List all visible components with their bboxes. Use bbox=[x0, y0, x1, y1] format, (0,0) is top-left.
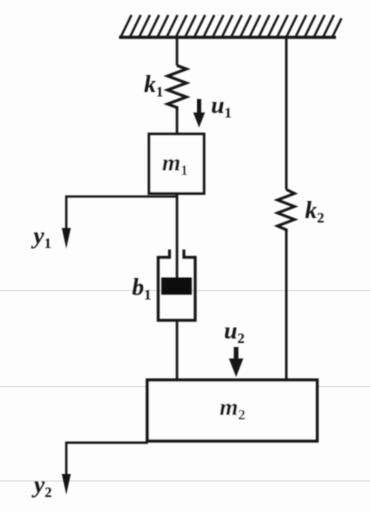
damper b1 piston bbox=[161, 278, 192, 295]
spring k1 bbox=[168, 66, 187, 111]
mass m2 bbox=[147, 380, 317, 441]
arrowhead y2 bbox=[62, 474, 71, 495]
wire: ceiling to spring k1 bbox=[176, 37, 179, 66]
mass m1 bbox=[149, 134, 204, 194]
wire: mass m1 to damper piston rod bbox=[176, 194, 179, 280]
spring k2 bbox=[278, 190, 295, 233]
wire: spring k2 to mass m2 bbox=[285, 232, 288, 381]
wire: damper b1 to mass m2 bbox=[176, 320, 179, 381]
force arrow u1 bbox=[193, 99, 205, 128]
force arrow u2 bbox=[229, 347, 243, 377]
damper b1 cylinder bbox=[158, 250, 195, 321]
arrowhead y1 bbox=[62, 228, 71, 249]
fixed ceiling support (hatched wall) bbox=[119, 15, 342, 37]
wire: ceiling to spring k2 bbox=[285, 37, 288, 190]
wire: spring k1 to mass m1 bbox=[176, 110, 179, 134]
displacement pickup y2 (wire) bbox=[66, 443, 148, 486]
displacement pickup y1 (wire) bbox=[66, 197, 177, 241]
